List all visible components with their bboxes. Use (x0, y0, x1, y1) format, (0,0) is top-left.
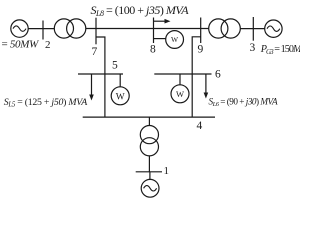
wattmeter W at bus 5 (111, 74, 129, 105)
svg-text:4: 4 (197, 120, 203, 132)
wire line 6-9 and line 4-6 (bus 9 jog down to bus 6 and bus 4) (192, 37, 201, 117)
svg-text:W: W (171, 35, 179, 44)
generator G1 (141, 179, 159, 197)
svg-text:8: 8 (150, 44, 156, 56)
svg-text:SL8 = (100 + j35) MVA: SL8 = (100 + j35) MVA (91, 3, 190, 18)
svg-text:7: 7 (92, 46, 98, 58)
generator G3 (265, 20, 282, 37)
svg-text:W: W (176, 89, 184, 99)
svg-text:5: 5 (112, 60, 118, 72)
transformer T1 (140, 126, 158, 156)
bus 5 (78, 73, 123, 75)
bus 9 (200, 18, 202, 44)
bus 6 (154, 73, 211, 75)
bus 3 (252, 17, 254, 41)
transformer T3 (209, 19, 241, 38)
load arrow at bus 5 (89, 74, 94, 101)
bus 8 (153, 18, 155, 44)
wire T1 to bus 1 (148, 156, 150, 172)
load arrow at bus 6 (204, 74, 209, 99)
bus 4 (83, 116, 215, 118)
svg-text:2: 2 (45, 39, 51, 51)
bus 1 (136, 171, 162, 173)
svg-text:= 50MW: = 50MW (2, 39, 40, 51)
wattmeter W at bus 8 (154, 31, 184, 49)
svg-text:6: 6 (215, 69, 221, 81)
transformer T2 (54, 19, 86, 38)
wire G2 to transformer T2 (28, 28, 54, 30)
wattmeter W at bus 6 (171, 74, 189, 103)
wire T3 to bus 3 and generator G3 (240, 28, 264, 30)
bus 2 (42, 21, 44, 40)
wire bus 4 to transformer T1 (148, 117, 150, 126)
svg-text:9: 9 (198, 44, 204, 56)
svg-text:SL6 = (90 + j30) MVA: SL6 = (90 + j30) MVA (209, 97, 278, 109)
load arrow at bus 8 (154, 19, 171, 24)
svg-text:3: 3 (250, 42, 256, 54)
wire bus 1 to generator G1 (149, 172, 151, 180)
wire T2 through bus 7, bus 8, bus 9 to transformer T3 (lines 7-8, 8-9) (86, 28, 209, 30)
bus 7 (95, 18, 97, 45)
generator G2 (11, 20, 28, 37)
wire line 5-7 and line 4-5 (bus 7 jog down to bus 5 and bus 4) (96, 37, 105, 117)
svg-text:1: 1 (164, 165, 170, 177)
svg-text:SL5 = (125 + j50) MVA: SL5 = (125 + j50) MVA (4, 97, 89, 109)
svg-text:PG3 = 150MW: PG3 = 150MW (260, 44, 300, 56)
svg-text:W: W (116, 93, 125, 103)
